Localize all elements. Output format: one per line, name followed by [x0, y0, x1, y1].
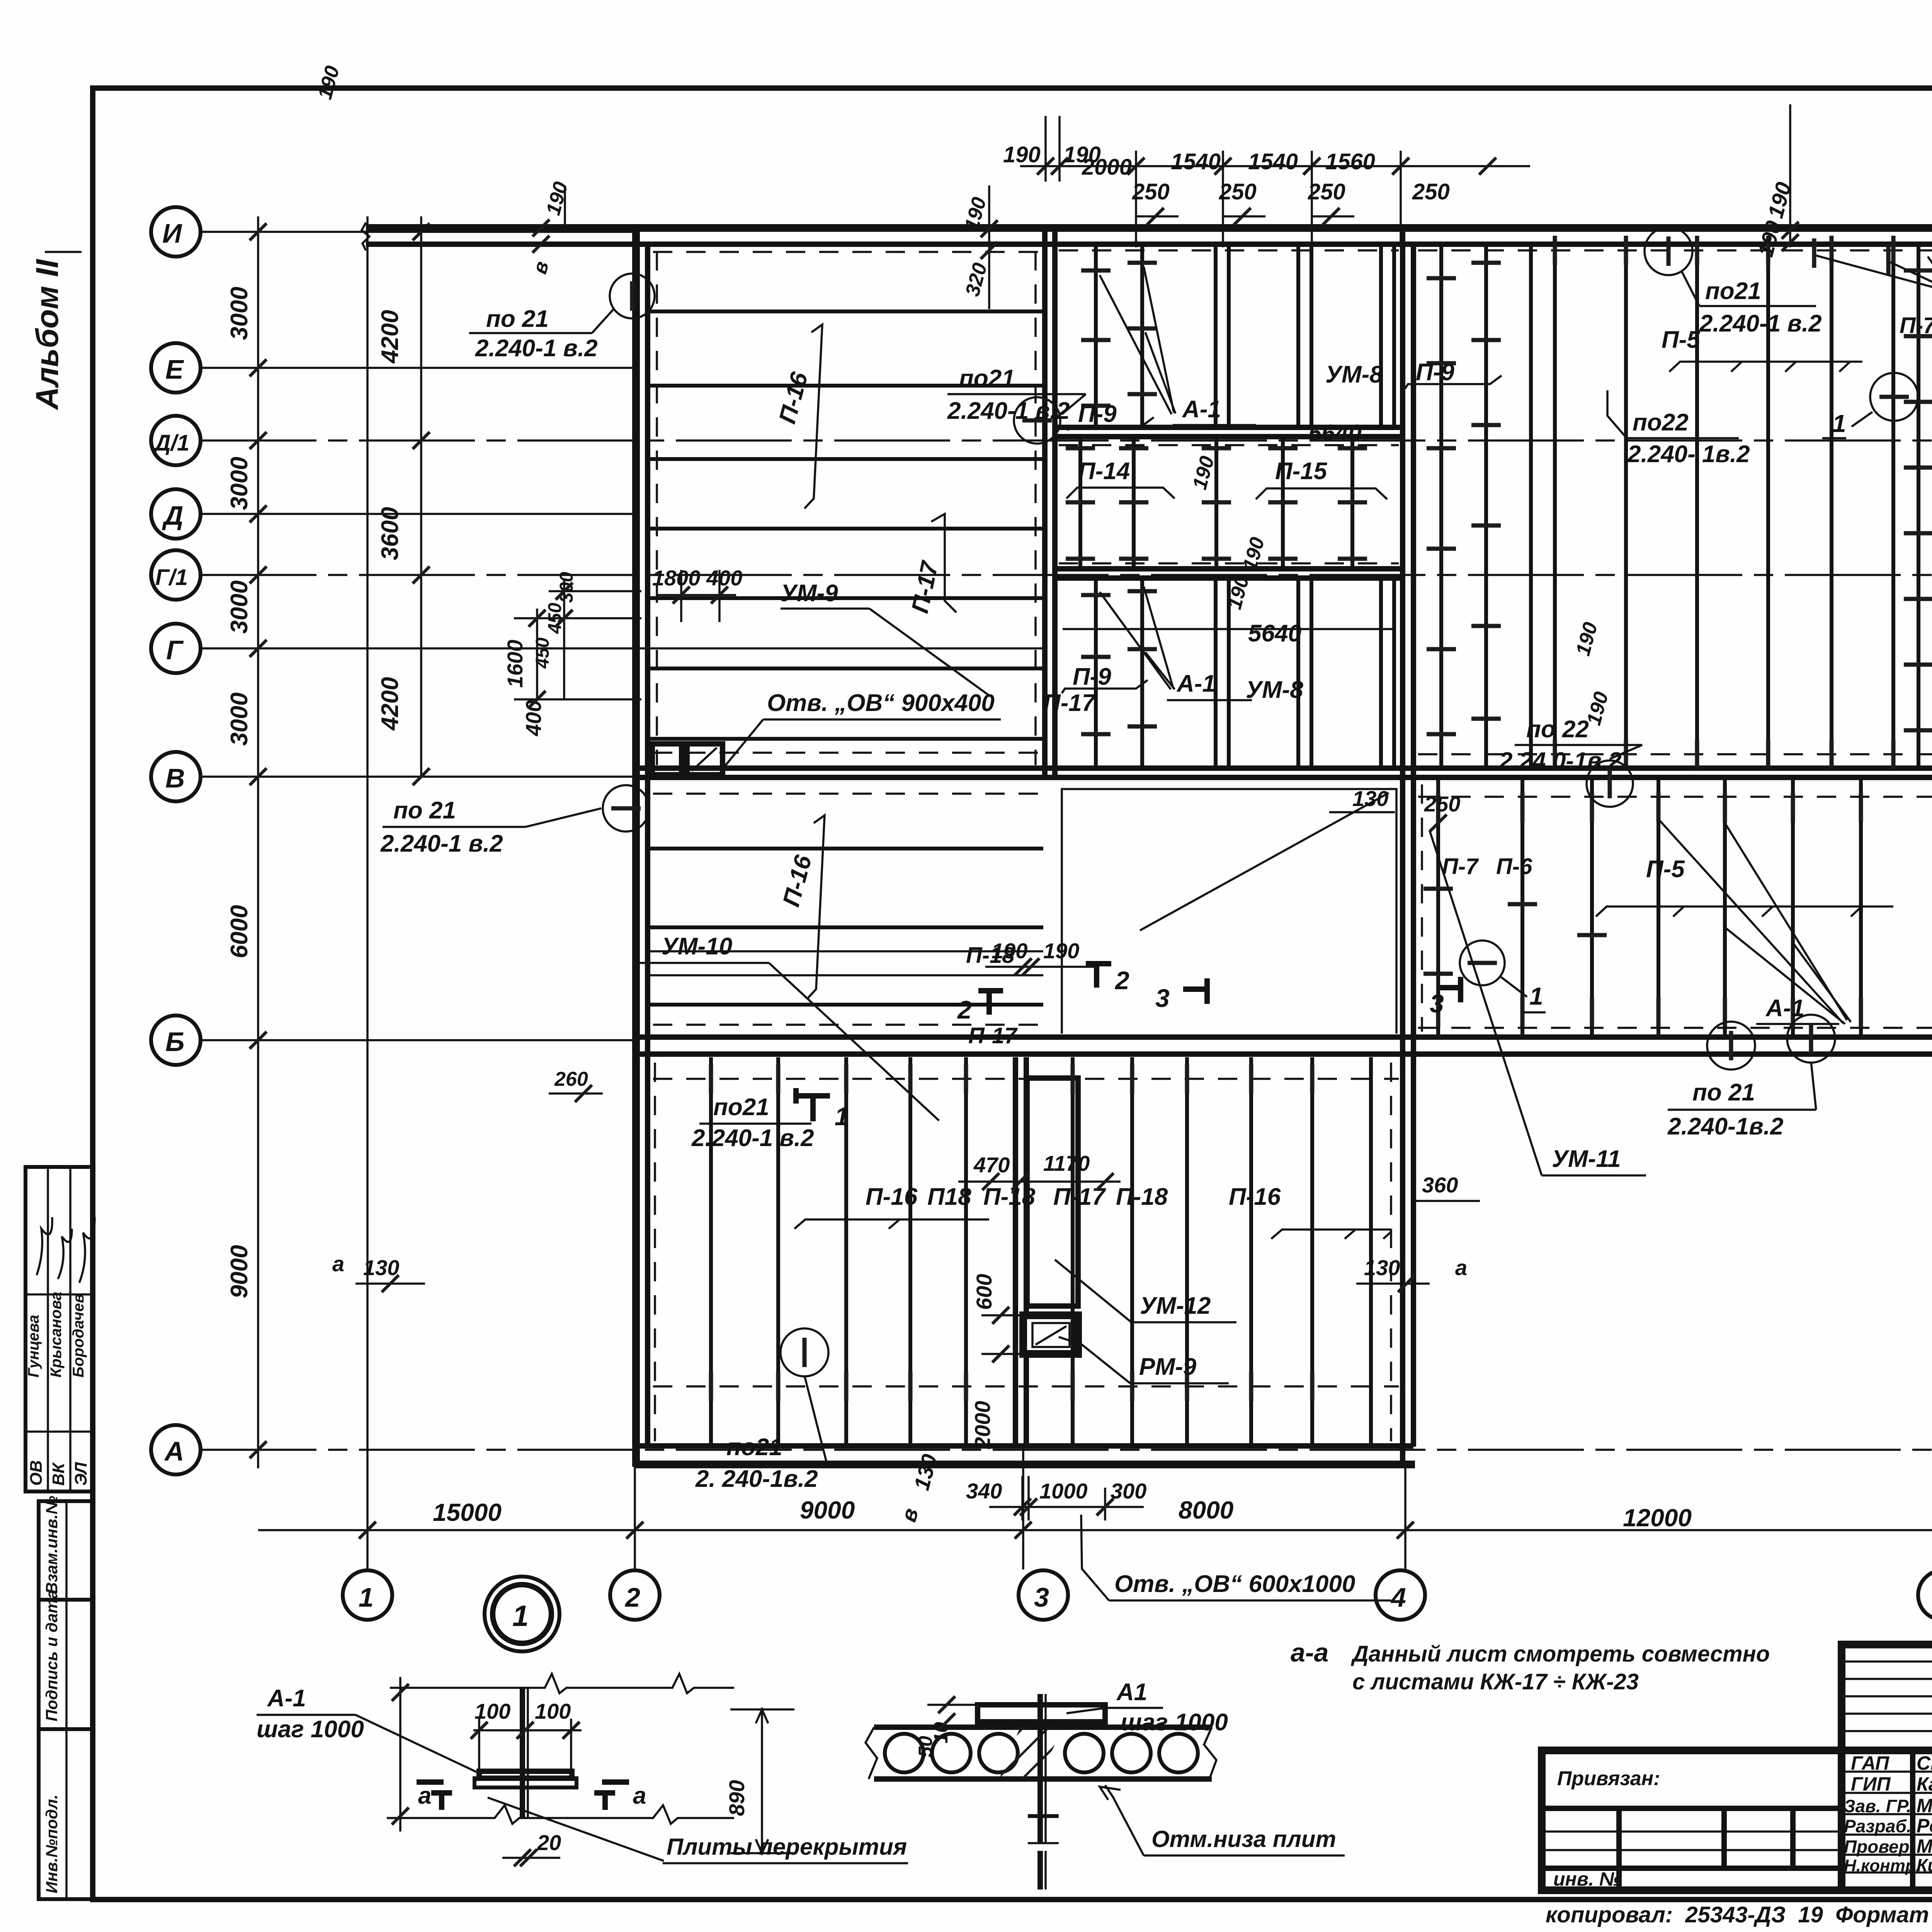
hatch wedges between voids	[999, 1727, 1063, 1779]
svg-text:600: 600	[972, 1274, 996, 1310]
top boundary line with breaks	[390, 1674, 734, 1693]
svg-text:4: 4	[1390, 1582, 1406, 1612]
svg-text:4200: 4200	[377, 677, 403, 731]
svg-text:П18: П18	[927, 1184, 971, 1210]
axis line А	[201, 1449, 1932, 1451]
axis circle 1	[343, 1570, 392, 1620]
svg-text:9000: 9000	[226, 1245, 253, 1298]
svg-text:по 21: по 21	[1692, 1079, 1755, 1106]
wall А (bottom)	[638, 1443, 1413, 1449]
svg-text:Инв.№подл.: Инв.№подл.	[43, 1794, 61, 1893]
svg-text:300: 300	[1111, 1479, 1146, 1503]
shaft double walls	[1015, 1057, 1078, 1444]
dim cluster 1600/450/450/300/400	[503, 572, 641, 736]
svg-text:Морозова: Морозова	[1917, 1835, 1932, 1857]
svg-text:260: 260	[554, 1068, 588, 1090]
svg-text:а: а	[1455, 1255, 1467, 1280]
row axis circle Г	[151, 624, 201, 673]
svg-text:2: 2	[1114, 966, 1129, 995]
по 21 callout (В-Б right)	[1667, 1015, 1835, 1140]
svg-text:Бородачев: Бородачев	[70, 1294, 87, 1378]
svg-text:П-17: П-17	[1043, 690, 1096, 716]
svg-text:1000: 1000	[1039, 1479, 1088, 1503]
wall И (top outer+inner)	[366, 224, 1932, 232]
svg-text:по21: по21	[713, 1094, 769, 1121]
svg-text:Каледина: Каледина	[1917, 1773, 1932, 1795]
slab lines	[1422, 779, 1932, 1036]
УМ-8 slab pair lines lower	[1216, 580, 1394, 767]
svg-text:Е: Е	[165, 354, 184, 384]
по 21 callout (left room, mid)	[947, 365, 1086, 444]
Отв ОВ 600х1000 note	[1081, 1515, 1391, 1600]
svg-text:Плиты перекрытия: Плиты перекрытия	[667, 1834, 907, 1860]
offset dashed top	[653, 1078, 1399, 1080]
А-1 fan lower + label	[1100, 587, 1252, 700]
svg-text:250: 250	[1424, 792, 1460, 816]
svg-text:УМ-12: УМ-12	[1140, 1293, 1211, 1319]
axis circle 4	[1376, 1570, 1425, 1620]
left dim vertical	[399, 1677, 401, 1832]
по 21 callout (outside left, row В-Б)	[380, 785, 649, 857]
slab joint	[648, 384, 1044, 388]
svg-text:Подпись и дата: Подпись и дата	[43, 1590, 61, 1721]
svg-text:по21: по21	[959, 365, 1015, 392]
svg-text:9000: 9000	[800, 1496, 855, 1524]
П-9 label lower	[1062, 663, 1148, 693]
svg-text:Б: Б	[165, 1027, 185, 1057]
по22 callout top right block	[1607, 390, 1750, 468]
svg-text:1170: 1170	[1043, 1151, 1090, 1175]
svg-text:2.240- 1в.2: 2.240- 1в.2	[1627, 441, 1750, 468]
svg-text:А-1: А-1	[1176, 670, 1216, 697]
axis 3 line below plan	[1022, 1446, 1024, 1570]
svg-text:Морозова: Морозова	[1917, 1795, 1932, 1816]
break squiggle at axis 1	[362, 223, 369, 250]
note: Данный лист смотреть совместно	[1350, 1641, 1770, 1694]
УМ-8 slab pair lines upper	[1216, 246, 1394, 427]
svg-text:5640: 5640	[1248, 620, 1301, 647]
row axis circle Г/1	[151, 550, 201, 600]
svg-text:Д/1: Д/1	[153, 430, 189, 456]
svg-text:Отв. „ОВ“ 900х400: Отв. „ОВ“ 900х400	[767, 690, 995, 716]
svg-text:а: а	[332, 1252, 344, 1276]
axis line Д	[201, 513, 636, 515]
svg-text:20: 20	[537, 1830, 561, 1855]
wall left (outer+inner)	[632, 226, 640, 1467]
А-1 fan top right	[1814, 238, 1932, 294]
А-1 fan (В-Б block)	[1658, 819, 1851, 1024]
svg-text:3: 3	[1034, 1582, 1049, 1612]
bolt marks top row	[711, 1064, 711, 1094]
svg-text:Гунцева: Гунцева	[25, 1315, 42, 1378]
svg-text:340: 340	[966, 1479, 1002, 1503]
svg-text:П-9: П-9	[1416, 359, 1454, 386]
svg-text:1600: 1600	[503, 639, 527, 688]
slab joint	[648, 667, 1044, 670]
axis line Д/1	[201, 439, 1932, 442]
axis line В	[201, 776, 636, 778]
section mark 2 upper	[957, 989, 1003, 1024]
svg-text:130: 130	[1352, 786, 1388, 811]
svg-text:П-5: П-5	[1646, 856, 1685, 883]
svg-text:ГИП: ГИП	[1851, 1773, 1891, 1795]
svg-text:2000: 2000	[970, 1401, 995, 1449]
offset dashed bottom	[1418, 1027, 1932, 1029]
left stamp box B	[39, 1496, 93, 1899]
slab joint	[648, 527, 1044, 531]
top offset dashed	[1059, 249, 1399, 252]
svg-text:Н.контр.: Н.контр.	[1844, 1856, 1920, 1875]
по 21 callout bottom-left with circle	[695, 1328, 828, 1492]
svg-text:1800 400: 1800 400	[652, 566, 743, 590]
svg-text:890: 890	[724, 1780, 749, 1816]
svg-text:ВК: ВК	[49, 1462, 68, 1486]
svg-text:250: 250	[1308, 179, 1345, 204]
title block outer box	[1542, 1750, 1932, 1890]
axis line И	[201, 231, 634, 233]
по 22 callout	[1499, 716, 1642, 807]
svg-text:2: 2	[957, 995, 972, 1024]
slab joint	[648, 1003, 1043, 1007]
wall offset dashed right	[1034, 251, 1037, 765]
svg-text:Г/1: Г/1	[155, 565, 188, 590]
callout circle on Б wall right part	[1707, 1022, 1755, 1070]
flange plate	[479, 1771, 572, 1778]
slab joint	[648, 457, 1044, 461]
svg-text:2: 2	[624, 1582, 640, 1612]
svg-text:12000: 12000	[1623, 1504, 1692, 1532]
svg-text:6000: 6000	[226, 905, 253, 958]
axis line Г/1	[201, 574, 1932, 576]
svg-text:Привязан:: Привязан:	[1557, 1767, 1660, 1790]
svg-text:Г: Г	[166, 635, 184, 665]
svg-text:ГАП: ГАП	[1851, 1752, 1889, 1774]
svg-text:2. 240-1в.2: 2. 240-1в.2	[695, 1466, 818, 1492]
svg-text:Д: Д	[162, 500, 184, 531]
axis 4 line below plan	[1404, 1467, 1406, 1570]
svg-text:1: 1	[835, 1102, 849, 1131]
wall on axis В	[638, 765, 1932, 771]
svg-text:Отв. „ОВ“ 600х1000: Отв. „ОВ“ 600х1000	[1114, 1571, 1355, 1597]
section mark 1 flag upper-left of bottom block	[796, 1088, 849, 1131]
dim 470 1170	[958, 1151, 1121, 1190]
П-7 strip	[1900, 246, 1932, 767]
axis 1 vertical	[366, 216, 369, 1570]
top plate А1	[978, 1705, 1105, 1722]
svg-text:Отм.низа плит: Отм.низа плит	[1151, 1826, 1336, 1852]
axis line Б	[201, 1039, 636, 1041]
row axis circle Д	[151, 489, 201, 539]
svg-text:2000: 2000	[1082, 155, 1132, 180]
section mark 1 with circle (right top)	[1822, 373, 1918, 438]
по21 callout top right	[1645, 227, 1822, 337]
svg-text:УМ-9: УМ-9	[781, 580, 838, 607]
П-9 rib lines upper	[1081, 246, 1157, 427]
svg-text:3600: 3600	[377, 507, 403, 560]
svg-text:100: 100	[535, 1699, 571, 1723]
dashed offsets left room	[653, 251, 1041, 253]
по21 callout in bottom block top-left	[691, 1094, 814, 1151]
svg-text:инв. №: инв. №	[1553, 1868, 1621, 1890]
slab joint	[648, 737, 1044, 741]
svg-text:250: 250	[1219, 179, 1257, 204]
svg-text:П-9: П-9	[1073, 663, 1111, 690]
svg-text:ОВ: ОВ	[27, 1460, 46, 1486]
axis circle 6	[1918, 1570, 1932, 1620]
Отв ОВ 900х400 opening box 2	[687, 744, 723, 775]
offset dashed bottom	[653, 1385, 1399, 1388]
svg-text:по21: по21	[1705, 278, 1761, 304]
svg-text:УМ-10: УМ-10	[662, 933, 732, 960]
svg-text:2.240-1в.2: 2.240-1в.2	[1667, 1113, 1783, 1140]
section mark 1 callout circle (В-Б)	[1460, 940, 1546, 1012]
svg-text:А: А	[164, 1436, 184, 1466]
svg-text:3: 3	[1430, 989, 1444, 1018]
svg-text:П-18: П-18	[983, 1184, 1036, 1210]
П-9 label upper	[1067, 401, 1154, 430]
svg-text:Провер.: Провер.	[1844, 1837, 1914, 1857]
middle room В-Б thin outline	[1062, 789, 1396, 1034]
svg-text:П-16: П-16	[1229, 1184, 1281, 1210]
svg-text:470: 470	[973, 1153, 1010, 1177]
offset dashed top	[1418, 249, 1932, 252]
row axis circle В	[151, 752, 201, 801]
svg-text:450: 450	[532, 638, 553, 669]
svg-text:Взам.инв.№: Взам.инв.№	[43, 1496, 61, 1594]
svg-text:по21: по21	[726, 1434, 782, 1461]
svg-text:400: 400	[521, 700, 546, 736]
wall mid vertical 2 (x3640)	[1400, 228, 1405, 1467]
svg-text:8000: 8000	[1179, 1496, 1233, 1524]
svg-text:П-9: П-9	[1078, 401, 1117, 427]
svg-text:3000: 3000	[226, 287, 253, 340]
Привязан table	[1542, 1806, 1842, 1811]
row axis circle Б	[151, 1015, 201, 1065]
slab joint thin	[648, 974, 1043, 976]
wall offset dashed left	[656, 251, 658, 765]
slab joint	[648, 310, 1044, 313]
svg-text:П-16: П-16	[866, 1184, 918, 1210]
svg-text:2.240-1 в.2: 2.240-1 в.2	[380, 830, 503, 857]
svg-text:250: 250	[1412, 179, 1450, 204]
row axis circle И	[151, 207, 201, 257]
thin mid line	[1063, 628, 1395, 630]
svg-text:шаг 1000: шаг 1000	[257, 1716, 364, 1743]
svg-text:П-7: П-7	[1442, 854, 1479, 879]
svg-text:П-17: П-17	[968, 1023, 1018, 1048]
I-beam web vertical	[520, 1688, 525, 1818]
role rows separators	[1842, 1770, 1932, 1773]
svg-text:2.240-1 в.2: 2.240-1 в.2	[475, 335, 598, 362]
svg-text:ЭЛ: ЭЛ	[71, 1462, 90, 1486]
УМ-11 callout	[1430, 831, 1646, 1175]
П-5 label + leader	[1662, 327, 1862, 372]
svg-text:Зав. ГР.: Зав. ГР.	[1844, 1796, 1911, 1816]
axis 2 line below plan	[634, 1467, 636, 1570]
slab joint	[648, 847, 1043, 850]
svg-text:П-7: П-7	[1900, 313, 1932, 338]
detail callout big circle 1	[485, 1577, 560, 1651]
svg-text:190: 190	[1003, 142, 1041, 167]
axis line Г	[201, 647, 1043, 650]
bolt marks bottom row	[711, 1372, 711, 1401]
svg-text:УМ-8: УМ-8	[1325, 361, 1383, 388]
svg-text:1: 1	[1832, 410, 1846, 437]
voids	[885, 1734, 923, 1772]
svg-text:П-5: П-5	[1662, 327, 1701, 353]
svg-text:А-1: А-1	[267, 1685, 306, 1712]
svg-text:П-15: П-15	[1275, 458, 1328, 485]
svg-text:Смирнов: Смирнов	[1917, 1752, 1932, 1774]
svg-text:УМ-8: УМ-8	[1246, 677, 1303, 703]
svg-text:РМ-9: РМ-9	[1139, 1354, 1197, 1380]
svg-text:190: 190	[1043, 939, 1079, 963]
slab lines vertical	[655, 1057, 1391, 1444]
svg-text:по 21: по 21	[486, 306, 549, 332]
svg-text:шаг 1000: шаг 1000	[1121, 1709, 1228, 1736]
svg-text:10: 10	[930, 1722, 952, 1743]
dim chain line 2	[420, 216, 422, 777]
wall mid vertical 1 (x2700)	[1042, 228, 1048, 777]
dim chain line 1	[257, 216, 259, 1468]
svg-text:1: 1	[512, 1600, 529, 1633]
dim line 1	[1020, 165, 1530, 167]
УМ-10 callout	[634, 933, 939, 1121]
П-14 П-15 band slabs	[1059, 438, 1399, 568]
П-5 slab lines	[1531, 236, 1893, 769]
svg-text:Разраб.: Разраб.	[1844, 1816, 1912, 1836]
П-9 rib lines lower	[1081, 580, 1157, 767]
svg-text:И: И	[162, 218, 182, 248]
slab joint	[648, 925, 1043, 929]
axis circle 3	[1019, 1570, 1068, 1620]
offset dashed bottom	[1418, 753, 1932, 755]
svg-text:4200: 4200	[377, 310, 403, 364]
130 corner leader diagonal	[1140, 793, 1389, 930]
axis line Е	[201, 367, 636, 369]
svg-text:250: 250	[1132, 179, 1170, 204]
svg-text:с листами КЖ-17 ÷ КЖ-23: с листами КЖ-17 ÷ КЖ-23	[1352, 1669, 1639, 1694]
svg-text:копировал: 25343-ДЗ 19 Форм: копировал: 25343-ДЗ 19 Формат А2	[1546, 1902, 1932, 1927]
А-1 fan upper + label	[1100, 267, 1256, 425]
main dim line	[258, 1529, 1932, 1531]
svg-text:2.240-1 в.2: 2.240-1 в.2	[691, 1125, 814, 1151]
svg-text:П-18: П-18	[1116, 1184, 1168, 1210]
svg-text:Данный лист смотреть совместно: Данный лист смотреть совместно	[1350, 1641, 1770, 1667]
svg-text:1: 1	[359, 1582, 374, 1612]
svg-text:1540: 1540	[1248, 149, 1298, 174]
svg-text:УМ-11: УМ-11	[1552, 1146, 1621, 1172]
svg-text:1540: 1540	[1171, 149, 1221, 174]
а section marks	[417, 1782, 452, 1810]
svg-text:360: 360	[1422, 1173, 1458, 1197]
section marks 2 and 3 in empty room	[1086, 962, 1129, 995]
row axis circle А	[151, 1425, 201, 1475]
svg-text:3000: 3000	[226, 580, 253, 634]
wall between sub-block-1 and П-14 band	[1055, 425, 1403, 430]
svg-text:П-6: П-6	[1496, 854, 1532, 879]
П-5 label + leader	[1596, 856, 1893, 917]
dim 340 1000 300	[966, 1476, 1146, 1520]
svg-text:В: В	[165, 763, 185, 793]
svg-text:по22: по22	[1633, 409, 1689, 436]
svg-text:1560: 1560	[1325, 149, 1375, 174]
svg-text:по 21: по 21	[393, 797, 456, 824]
П-9 ribs	[1405, 246, 1502, 767]
Отв ОВ 900х400 opening box 1	[652, 744, 682, 775]
по 21 callout (left room, top)	[469, 274, 655, 362]
axis circle 2	[610, 1570, 660, 1620]
svg-text:3000: 3000	[226, 457, 253, 510]
svg-text:а: а	[418, 1782, 431, 1809]
svg-text:190: 190	[992, 939, 1027, 963]
svg-text:2.240-1 в.2: 2.240-1 в.2	[1699, 310, 1822, 337]
РМ-9 callout	[1059, 1337, 1229, 1383]
row axis circle Е	[151, 343, 201, 393]
bottom boundary line	[387, 1805, 734, 1824]
svg-text:А1: А1	[1116, 1679, 1147, 1706]
anchor rod vertical	[1037, 1694, 1043, 1843]
label leader brackets	[794, 1219, 989, 1229]
svg-text:Кириенкова: Кириенкова	[1917, 1855, 1932, 1875]
dim 190 190 rotated top right	[1753, 104, 1799, 259]
wall on axis Б	[638, 1034, 1932, 1040]
wall between band and sub-block-2	[1055, 566, 1403, 571]
РМ-9 opening box	[1023, 1315, 1078, 1354]
svg-text:а-а: а-а	[1291, 1638, 1328, 1667]
svg-text:3: 3	[1155, 984, 1170, 1012]
slab joint thin	[648, 950, 1043, 952]
left stamp box A	[25, 1167, 95, 1492]
svg-text:130: 130	[363, 1255, 399, 1280]
svg-text:15000: 15000	[433, 1498, 502, 1526]
svg-text:а: а	[633, 1782, 646, 1809]
svg-text:Крысанова: Крысанова	[48, 1292, 65, 1378]
svg-text:П-14: П-14	[1078, 458, 1130, 485]
slab joint	[648, 596, 1044, 600]
svg-text:по 22: по 22	[1526, 716, 1589, 743]
svg-text:1: 1	[1529, 982, 1543, 1010]
offset dashed top	[1418, 796, 1932, 798]
svg-text:Рондарева: Рондарева	[1917, 1815, 1932, 1837]
svg-text:3000: 3000	[226, 692, 253, 746]
slab body with voids	[874, 1725, 1212, 1730]
svg-text:Альбом II: Альбом II	[30, 259, 65, 410]
row axis circle Д/1	[151, 416, 201, 465]
УМ-12 callout	[1055, 1260, 1236, 1322]
